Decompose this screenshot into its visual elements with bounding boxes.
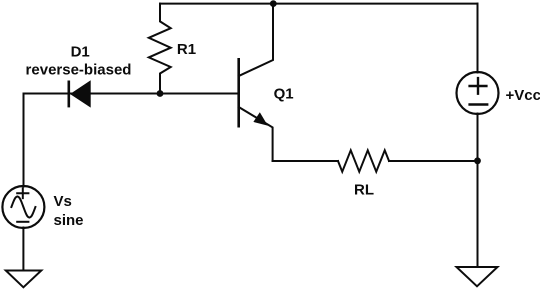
svg-text:R1: R1: [177, 41, 196, 58]
wire RL to right rail: [389, 160, 478, 162]
wire right rail middle: [477, 114, 479, 268]
wire emitter to RL: [273, 160, 338, 162]
ground left: [6, 271, 42, 288]
junction dot right: [474, 157, 481, 164]
junction dot base: [157, 90, 164, 97]
svg-text:RL: RL: [354, 182, 374, 199]
wire left vertical lower: [22, 228, 24, 271]
svg-text:Q1: Q1: [274, 86, 294, 103]
wire left vertical upper: [23, 94, 25, 187]
source Vs sine: [11, 196, 35, 217]
transistor Q1 base bar: [237, 59, 240, 126]
source Vs plus: [17, 189, 28, 199]
wire base horizontal: [24, 93, 239, 95]
svg-text:+Vcc: +Vcc: [506, 87, 540, 104]
svg-text:sine: sine: [54, 212, 84, 229]
resistor R1: [149, 4, 171, 94]
source Vs minus: [17, 221, 28, 223]
transistor Q1 emitter arrow: [254, 113, 267, 125]
resistor RL: [338, 150, 389, 171]
svg-text:reverse-biased: reverse-biased: [26, 62, 132, 79]
transistor Q1 emitter: [239, 107, 273, 161]
source Vcc minus: [470, 103, 488, 105]
wire top rail: [160, 3, 478, 5]
wire right rail upper: [477, 4, 479, 73]
source Vcc plus: [470, 78, 487, 94]
source Vcc circle: [457, 72, 499, 114]
svg-text:Vs: Vs: [54, 193, 72, 210]
transistor Q1 collector: [239, 4, 273, 76]
ground right: [457, 267, 498, 286]
junction dot top: [270, 0, 277, 7]
diode D1: [69, 81, 90, 108]
svg-text:D1: D1: [71, 44, 90, 61]
source Vs circle: [2, 186, 44, 228]
